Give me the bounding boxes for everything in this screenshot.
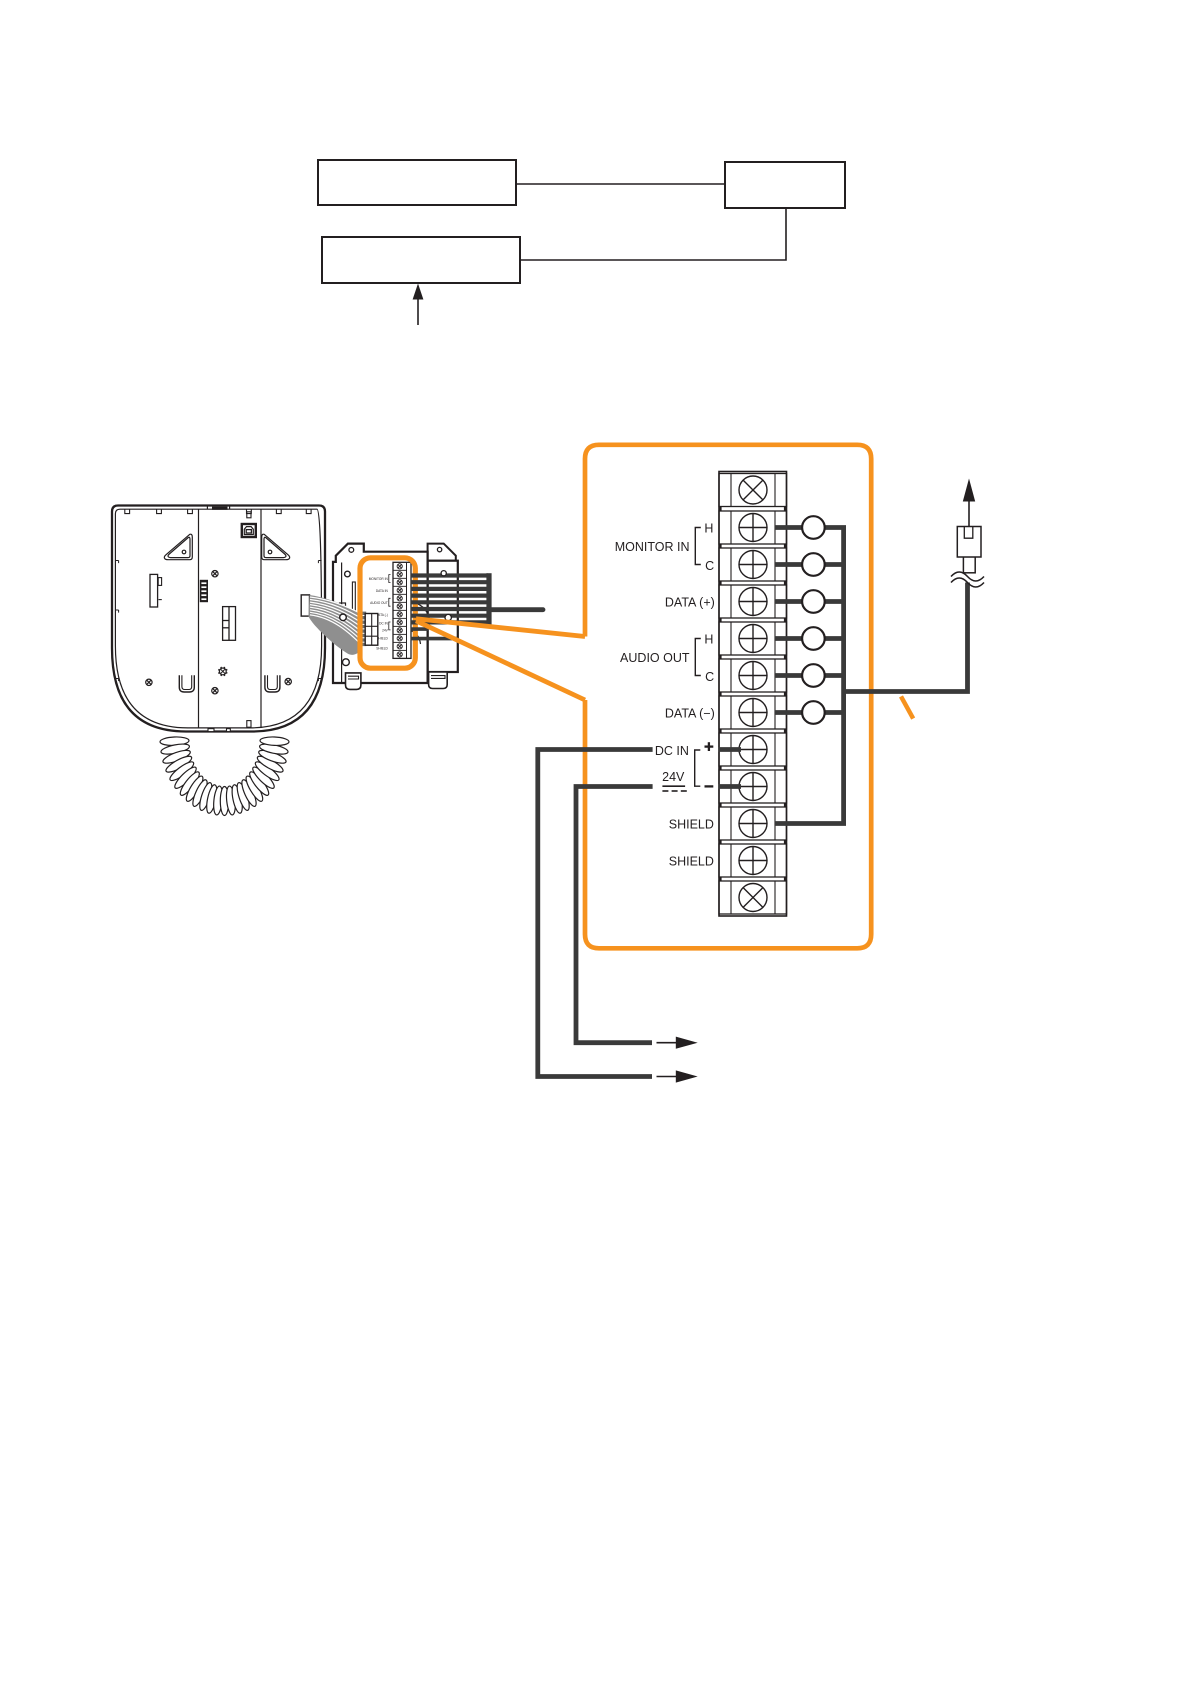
svg-text:C: C bbox=[705, 670, 714, 684]
svg-text:H: H bbox=[704, 521, 713, 535]
svg-text:24V: 24V bbox=[382, 629, 389, 633]
svg-text:SHIELD: SHIELD bbox=[376, 647, 388, 651]
svg-text:AUDIO OUT: AUDIO OUT bbox=[370, 601, 388, 605]
svg-text:SHIELD: SHIELD bbox=[669, 818, 714, 832]
svg-text:C: C bbox=[705, 559, 714, 573]
svg-text:DATA IN: DATA IN bbox=[376, 589, 389, 593]
svg-text:DC IN: DC IN bbox=[655, 744, 689, 758]
svg-text:AUDIO OUT: AUDIO OUT bbox=[620, 651, 690, 665]
svg-text:SHIELD: SHIELD bbox=[669, 855, 714, 869]
svg-text:DATA (+): DATA (+) bbox=[665, 596, 715, 610]
svg-text:DC IN: DC IN bbox=[379, 622, 388, 626]
svg-text:MONITOR IN: MONITOR IN bbox=[369, 577, 389, 581]
svg-text:H: H bbox=[704, 632, 713, 646]
svg-text:24V: 24V bbox=[662, 770, 685, 784]
svg-text:MONITOR IN: MONITOR IN bbox=[615, 540, 690, 554]
svg-text:DATA (−): DATA (−) bbox=[665, 707, 715, 721]
